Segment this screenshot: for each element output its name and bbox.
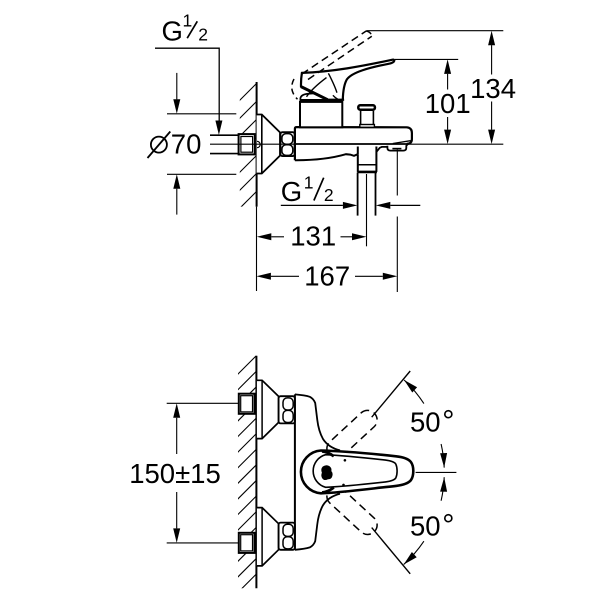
wall line (side view) — [256, 82, 258, 207]
handle outline (top view) — [301, 451, 413, 494]
housing joint thick line — [300, 99, 343, 102]
aerator tab under spout end — [387, 144, 408, 151]
handle swing centerline — [416, 471, 457, 473]
svg-text:167: 167 — [304, 260, 350, 291]
escutcheon base ring line — [261, 115, 263, 174]
spout end underside slant — [393, 141, 411, 144]
logo blob — [321, 465, 332, 480]
handle inner line (top view) — [313, 455, 397, 488]
svg-text:50°: 50° — [410, 508, 455, 543]
faucet body neck lower (top view) — [295, 494, 340, 550]
lower escutcheon cone (top view) — [257, 508, 279, 566]
lower hex nut (top view) — [279, 523, 295, 550]
150 extension line upper — [167, 402, 239, 404]
diverter knob stem — [360, 111, 362, 125]
faucet body neck upper (top view) — [295, 394, 340, 450]
wall line (top view) — [255, 356, 257, 589]
G1/2 leader underline — [155, 48, 219, 121]
faucet body back edge (top view) — [294, 394, 296, 549]
dimension 101 — [447, 74, 449, 90]
union square fitting (side view) — [239, 134, 255, 154]
hose connection pipe — [357, 173, 359, 216]
diverter knob cap — [358, 105, 375, 109]
svg-text:131: 131 — [290, 220, 336, 251]
extension line raised handle top — [366, 30, 503, 32]
svg-text:70: 70 — [171, 129, 202, 160]
upper 50 degree reference line — [372, 371, 411, 417]
svg-text:101: 101 — [425, 88, 471, 119]
faucet body silhouette (side view, white fill) — [295, 127, 412, 216]
spout bar outline (side view) — [295, 127, 412, 160]
lower dashed handle position (top view) — [327, 487, 377, 535]
hex nut (side view) — [280, 132, 294, 156]
spout underside profile — [295, 154, 358, 160]
svg-text:1: 1 — [304, 173, 314, 193]
main centerline / bottom extension — [210, 143, 503, 145]
svg-text:50°: 50° — [410, 404, 455, 439]
150 extension line lower — [167, 542, 239, 544]
lower 50° arc and arrows — [441, 477, 444, 501]
dimension 167 — [271, 275, 299, 277]
raised handle position (dashed) — [302, 31, 366, 74]
svg-text:G: G — [281, 176, 302, 207]
handle hook detail top — [322, 451, 334, 456]
surface dots — [344, 459, 347, 462]
label Ø70 — [151, 137, 167, 153]
svg-text:2: 2 — [198, 24, 208, 44]
shower hose collar — [358, 152, 377, 172]
upper 50° arc and arrows — [404, 380, 424, 404]
167 right extension line — [396, 150, 398, 196]
upper union square (top view) — [239, 394, 255, 414]
upper escutcheon cone (top view) — [257, 380, 279, 438]
diverter knob flange — [360, 125, 375, 128]
svg-text:150±15: 150±15 — [129, 458, 221, 489]
lower 50 degree reference line — [372, 528, 411, 574]
cone hub arc at wall — [257, 141, 260, 147]
wall extension line down to 167 dimension — [256, 207, 258, 291]
escutcheon cone (side view) — [257, 115, 280, 174]
handle crease lines — [328, 73, 337, 99]
upper dashed handle position (top view) — [327, 410, 377, 458]
cartridge housing (side view) — [300, 102, 342, 127]
hose pipe centerline / 131 extension — [366, 174, 368, 246]
dimension Ø70 arrow lines — [176, 73, 178, 100]
G1/2 hose dimension lines — [281, 204, 343, 206]
svg-text:134: 134 — [470, 73, 516, 104]
spout bottom edge — [295, 143, 408, 145]
svg-text:1: 1 — [183, 11, 193, 31]
dimension 150±15 — [176, 418, 178, 454]
dimension Ø70 extension lines — [167, 113, 236, 115]
svg-text:2: 2 — [324, 185, 334, 205]
handle hook detail bottom — [322, 488, 334, 493]
upper hex nut (top view) — [279, 396, 295, 423]
svg-text:G: G — [162, 16, 183, 47]
extension line handle tip — [395, 58, 458, 60]
lower union square (top view) — [239, 533, 255, 553]
handle hood lower edge (bold) — [301, 87, 328, 100]
dimension 131 — [271, 236, 284, 238]
lever handle (side view) — [301, 60, 394, 100]
G1/2 leader arrow — [215, 121, 222, 136]
aerator slot tick — [392, 148, 401, 150]
cartridge dome (side view) — [300, 93, 343, 100]
dimension 134 — [491, 45, 493, 74]
inlet pipe behind wall (side view) — [210, 134, 239, 136]
raised handle rear dashed arc — [292, 79, 298, 99]
